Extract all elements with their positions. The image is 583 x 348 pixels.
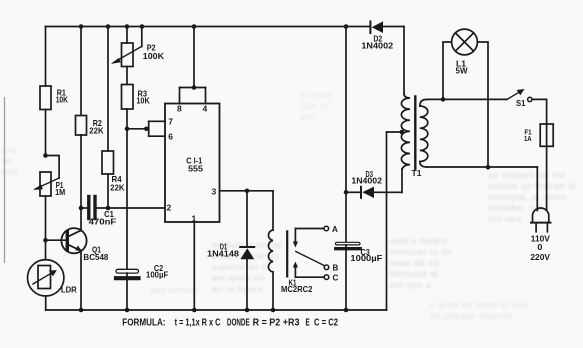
formula text [122,317,338,328]
node C3 ground [344,308,349,313]
label D2 1N4002 [361,34,393,50]
potentiometer P1 [40,172,51,196]
wire LDR bottom to ground rail [45,296,47,310]
svg-text:B: B [333,264,339,273]
label R4 22K [110,175,125,192]
label S1 [516,99,526,108]
label D1 1N4148 [207,242,240,258]
svg-text:220V: 220V [530,253,550,262]
wire left rail top segment (to R1) [45,27,47,87]
wire P1 bottom to LDR [45,196,47,260]
relay armature bar [286,231,288,276]
wire junction to bracket [127,128,149,130]
label R1 10K [56,89,68,105]
node terminal B [324,265,329,270]
node P2 wiper top [140,24,145,29]
contact moving arm to B [296,252,325,266]
svg-text:E: E [306,317,311,328]
diode D1 1N4148 [240,246,254,248]
wire R2 top [80,27,82,116]
svg-text:t = 1,1x R x C: t = 1,1x R x C [175,317,221,328]
label F1 1A [524,127,532,143]
node Q1 emitter ground [79,308,84,313]
svg-text:T1: T1 [412,169,423,178]
svg-text:1N4002: 1N4002 [351,176,382,185]
label P1 1M [55,181,65,197]
svg-text:6: 6 [168,132,173,142]
wire primary top row [427,98,507,100]
svg-text:1000µF: 1000µF [350,254,382,263]
svg-text:100K: 100K [143,52,164,61]
node supply rail [192,24,197,29]
wire center tap to ground line [387,131,402,133]
svg-text:7: 7 [168,117,173,127]
wire R1 bottom to P1 node [45,110,47,156]
wire R3 bottom down to C2 [126,109,128,269]
node P2 top [125,24,130,29]
label CI-1 555 [186,157,203,174]
plug pin right [546,224,548,232]
svg-text:22K: 22K [89,126,103,135]
node R2 top [79,24,84,29]
resistor R2 [76,116,87,136]
wire D1 top lead [246,191,248,246]
wire pin 3 row [220,190,274,192]
relay K1 coil [268,230,273,272]
svg-text:DONDE: DONDE [227,317,250,328]
wire +V line down to D3 [345,27,347,243]
svg-text:C = C2: C = C2 [314,317,338,328]
wire C3 bottom to ground [345,250,347,310]
svg-text:555: 555 [188,165,203,174]
svg-text:S1: S1 [516,99,526,108]
wire primary bottom row [427,166,537,168]
svg-text:FORMULA:: FORMULA: [122,317,165,328]
svg-text:LDR: LDR [61,285,77,294]
fuse F1 1A [546,124,548,211]
contact arm down arrow [294,229,296,245]
svg-text:MC2RC2: MC2RC2 [281,285,313,294]
label L1 5W [456,59,468,75]
node terminal A [324,226,329,231]
svg-text:470nF: 470nF [89,217,117,226]
wire P1 wiper bracket [46,156,60,179]
label D3 1N4002 [351,170,382,185]
node D3 anode junction [344,190,349,195]
lamp L1 5W [443,42,452,99]
diode D2 1N4002 [369,21,371,33]
svg-text:100µF: 100µF [146,270,168,279]
bleed-through background text [212,240,322,295]
wire C1 right lead [97,207,108,209]
wire Q1 base [46,239,68,241]
node C1 left junction [79,206,84,211]
wire P2 wiper to rail [141,27,143,47]
svg-text:BC548: BC548 [83,253,108,262]
node D1 top [245,189,250,194]
wire C2 bottom to ground [126,280,128,310]
svg-text:4: 4 [203,104,208,114]
svg-text:1M: 1M [55,188,65,197]
wire relay coil top lead [272,191,274,230]
transformer T1 core [414,97,416,170]
wire P2 top [126,27,128,44]
svg-text:A: A [332,225,338,234]
svg-text:5W: 5W [456,66,468,75]
svg-text:22K: 22K [110,183,125,192]
label Q1 BC548 [83,246,108,262]
wire pin2 row [108,207,165,209]
svg-text:110V: 110V [531,234,551,243]
capacitor C1 [87,197,90,219]
node bracket center [192,85,197,90]
label C3 1000uF [350,248,382,263]
capacitor C3 1000uF [336,242,361,245]
label C2 100uF [146,264,168,280]
label R3 10K [136,90,149,106]
label R2 22K [89,119,103,135]
label K1 MC2RC2 [281,278,313,294]
wire pin 7 [149,120,165,122]
transistor Q1 BC548 [61,228,86,253]
pin 4 stub [205,88,207,104]
svg-text:C: C [333,274,339,283]
resistor R3 [122,85,134,110]
wire relay coil bottom lead [272,272,274,310]
label 110V 0 220V [530,234,550,261]
wire R4 top [107,27,109,152]
wire D1 bottom lead [246,259,248,310]
wire ground return line [386,132,388,310]
label LDR [61,285,77,294]
switch S1 [507,91,522,100]
label T1 [412,169,423,178]
mains plug [533,208,549,223]
node pin1 ground [192,308,197,313]
node pins 7-6 junction left [125,127,130,132]
node lamp left [441,97,446,102]
contact arm up arrow [294,265,296,277]
wire Q1 collector [80,208,82,231]
resistor R1 [40,86,51,110]
wire pin 1 to ground [193,222,195,310]
wire 8-4 bracket [180,87,206,89]
wire P2 to R3 [126,67,128,85]
pin 8 stub [179,88,181,104]
capacitor C2 [116,269,139,273]
node lamp right [486,165,491,170]
wire supply stub [193,27,195,88]
diode D3 1N4002 [346,191,360,193]
svg-text:8: 8 [177,104,182,114]
label P2 100K [143,44,164,62]
transformer T1 secondary winding [401,94,410,170]
node C1 right junction [106,206,111,211]
labels A B C [332,225,339,283]
pin number labels [167,104,217,224]
node bracket junction [144,127,149,132]
svg-text:R = P2 +R3: R = P2 +R3 [253,317,300,328]
svg-text:1N4002: 1N4002 [361,42,393,51]
potentiometer P2 [122,43,134,67]
wire top +V rail [46,26,370,28]
wire secondary bottom to D3 [401,169,403,192]
node +V line top [344,24,349,29]
wire plug cord left [536,167,538,211]
wire C1 left lead [81,207,87,209]
svg-text:0: 0 [537,243,543,252]
wire D2 anode down to secondary top [403,27,405,94]
transformer T1 primary winding [420,99,428,167]
svg-text:1A: 1A [524,134,532,143]
svg-text:10K: 10K [56,96,68,105]
wire S1 to F1 [532,99,547,124]
resistor R4 [102,151,114,174]
svg-text:3: 3 [212,187,217,197]
wire Q1 emitter to ground [80,250,82,310]
wire bottom ground rail [46,309,387,311]
svg-text:1N4148: 1N4148 [207,249,240,258]
wire pin 6 [149,135,165,137]
label C1 470nF [89,210,117,226]
node C2 ground [125,308,130,313]
wire R2 bottom to C1 node [80,135,82,208]
node terminal C [324,275,329,280]
node P1 top junction [43,153,48,158]
svg-text:10K: 10K [136,97,149,106]
wire pins 7-6 bracket [148,121,150,136]
plug body base [531,222,551,224]
wire R4 bottom [107,174,109,208]
node D1 ground [245,308,250,313]
node Q1 base junction [43,238,48,243]
wire contact C [295,276,324,278]
wire contact A [295,228,324,230]
LDR [28,260,64,296]
svg-text:2: 2 [167,203,172,213]
node T1 center tap [400,130,405,135]
plug pin left [535,224,537,232]
op-amp U1 555 box [165,104,220,223]
node R4 top [106,24,111,29]
node relay coil ground [271,308,276,313]
